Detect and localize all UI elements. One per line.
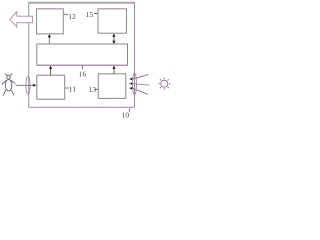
svg-text:16: 16 (79, 69, 87, 78)
svg-text:11: 11 (69, 84, 76, 93)
wire ray lower into block 13 (132, 87, 135, 90)
wire ray upper into block 13 (132, 78, 135, 80)
label 12 leader tick (64, 13, 68, 15)
person leg right (11, 90, 14, 96)
arrowhead into bus bottom (112, 66, 115, 69)
wire block 13 to bus (113, 68, 115, 74)
wire bus to block 12 (48, 37, 50, 45)
block 15 (memory) (98, 9, 127, 33)
block 13 (sensor) (98, 74, 126, 99)
sun icon circle (161, 80, 168, 87)
svg-text:12: 12 (68, 12, 76, 21)
label 16 leader tick (82, 66, 84, 69)
svg-text:15: 15 (86, 10, 94, 19)
outer enclosure box 10 (29, 2, 135, 107)
bus 16 (long rectangle) (37, 44, 128, 65)
arrowhead into block 12 (48, 34, 51, 37)
block 11 (imager) (37, 75, 65, 99)
sun ray middle (right of lens) (135, 84, 150, 85)
sun ray upper (right of lens) (135, 74, 149, 78)
person arm right (11, 80, 15, 84)
svg-text:10: 10 (122, 110, 130, 119)
arrowhead into bus top (112, 41, 115, 44)
svg-text:13: 13 (89, 85, 97, 94)
person antenna right (10, 74, 13, 76)
arrowhead lower into block 13 (129, 87, 132, 90)
wire ray middle into block 13 (132, 83, 135, 85)
block 12 (display) (37, 9, 64, 34)
wire light ray from subject into block 11 (16, 84, 34, 86)
label 13 leader tick (95, 88, 98, 90)
person arm left (2, 80, 6, 84)
label 11 leader tick (65, 87, 68, 89)
sun ray lower (right of lens) (135, 89, 148, 94)
label 10 leader tick (129, 108, 130, 112)
arrowhead upper into block 13 (129, 78, 132, 81)
sun rays (158, 78, 170, 90)
arrowhead into block 15 (112, 33, 115, 36)
person/subject icon head (7, 76, 11, 80)
hollow output arrow (points left out of box) (10, 12, 33, 27)
arrowhead into bus bottom (49, 66, 52, 69)
lens on left wall (26, 77, 30, 95)
person leg left (3, 90, 6, 96)
label 15 leader tick (94, 13, 98, 15)
wire block 11 to bus (50, 68, 52, 75)
person antenna left (5, 73, 8, 75)
wire block 15 to bus (bidirectional) (113, 36, 115, 43)
person body (5, 79, 11, 91)
lens on right wall (133, 73, 137, 95)
arrowhead into block 11 (33, 84, 36, 87)
arrowhead middle into block 13 (129, 82, 132, 85)
